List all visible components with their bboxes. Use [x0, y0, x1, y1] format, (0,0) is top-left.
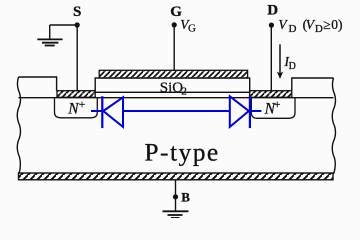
wire S to ground horizontal	[50, 24, 77, 26]
wire ground drop	[49, 25, 51, 39]
diode D2 triangle	[230, 96, 249, 127]
left field block top edge	[19, 77, 57, 91]
N+ source well	[55, 98, 98, 118]
silicon surface line	[19, 97, 334, 99]
svg-text:S: S	[73, 4, 81, 20]
svg-text:≥: ≥	[323, 17, 330, 32]
wire B terminal	[175, 180, 177, 211]
svg-text:0): 0)	[331, 17, 342, 32]
wire D terminal vertical	[270, 25, 272, 91]
svg-text:+: +	[79, 99, 86, 111]
substrate right wavy edge	[332, 78, 335, 174]
right field block top edge	[292, 78, 334, 91]
svg-text:D: D	[267, 2, 278, 18]
wire G terminal vertical	[173, 25, 175, 70]
svg-text:+: +	[274, 99, 281, 111]
diode D2 cathode wire stub into drain	[250, 110, 262, 112]
node B dot	[173, 194, 178, 199]
ground symbol bottom	[163, 211, 189, 218]
substrate left wavy edge	[17, 77, 20, 174]
node D dot	[269, 23, 274, 28]
node S dot	[75, 22, 80, 27]
diode D2 cathode bar	[249, 96, 251, 129]
svg-text:2: 2	[181, 85, 187, 97]
gate electrode (hatched)	[99, 70, 247, 78]
source contact (hatched)	[57, 91, 95, 98]
drain contact (hatched)	[250, 91, 292, 98]
svg-text:G: G	[188, 23, 196, 35]
diode D1 cathode bar	[101, 96, 103, 128]
body contact (hatched)	[19, 173, 334, 180]
svg-text:P-type: P-type	[144, 137, 219, 166]
svg-text:D: D	[289, 23, 297, 35]
N+ drain well	[251, 98, 295, 119]
svg-text:B: B	[181, 190, 190, 205]
ground symbol top-left	[37, 39, 62, 45]
current ID arrow	[277, 44, 283, 79]
diode D1 anode wire stub into source	[91, 110, 102, 112]
oxide box SiO2	[95, 78, 250, 92]
svg-text:SiO: SiO	[160, 80, 184, 96]
node G dot	[172, 22, 177, 27]
wire S terminal vertical	[76, 25, 78, 91]
svg-text:D: D	[315, 23, 323, 35]
diode D1 triangle	[103, 97, 123, 127]
wire between diodes	[123, 110, 230, 112]
svg-text:D: D	[289, 61, 296, 72]
